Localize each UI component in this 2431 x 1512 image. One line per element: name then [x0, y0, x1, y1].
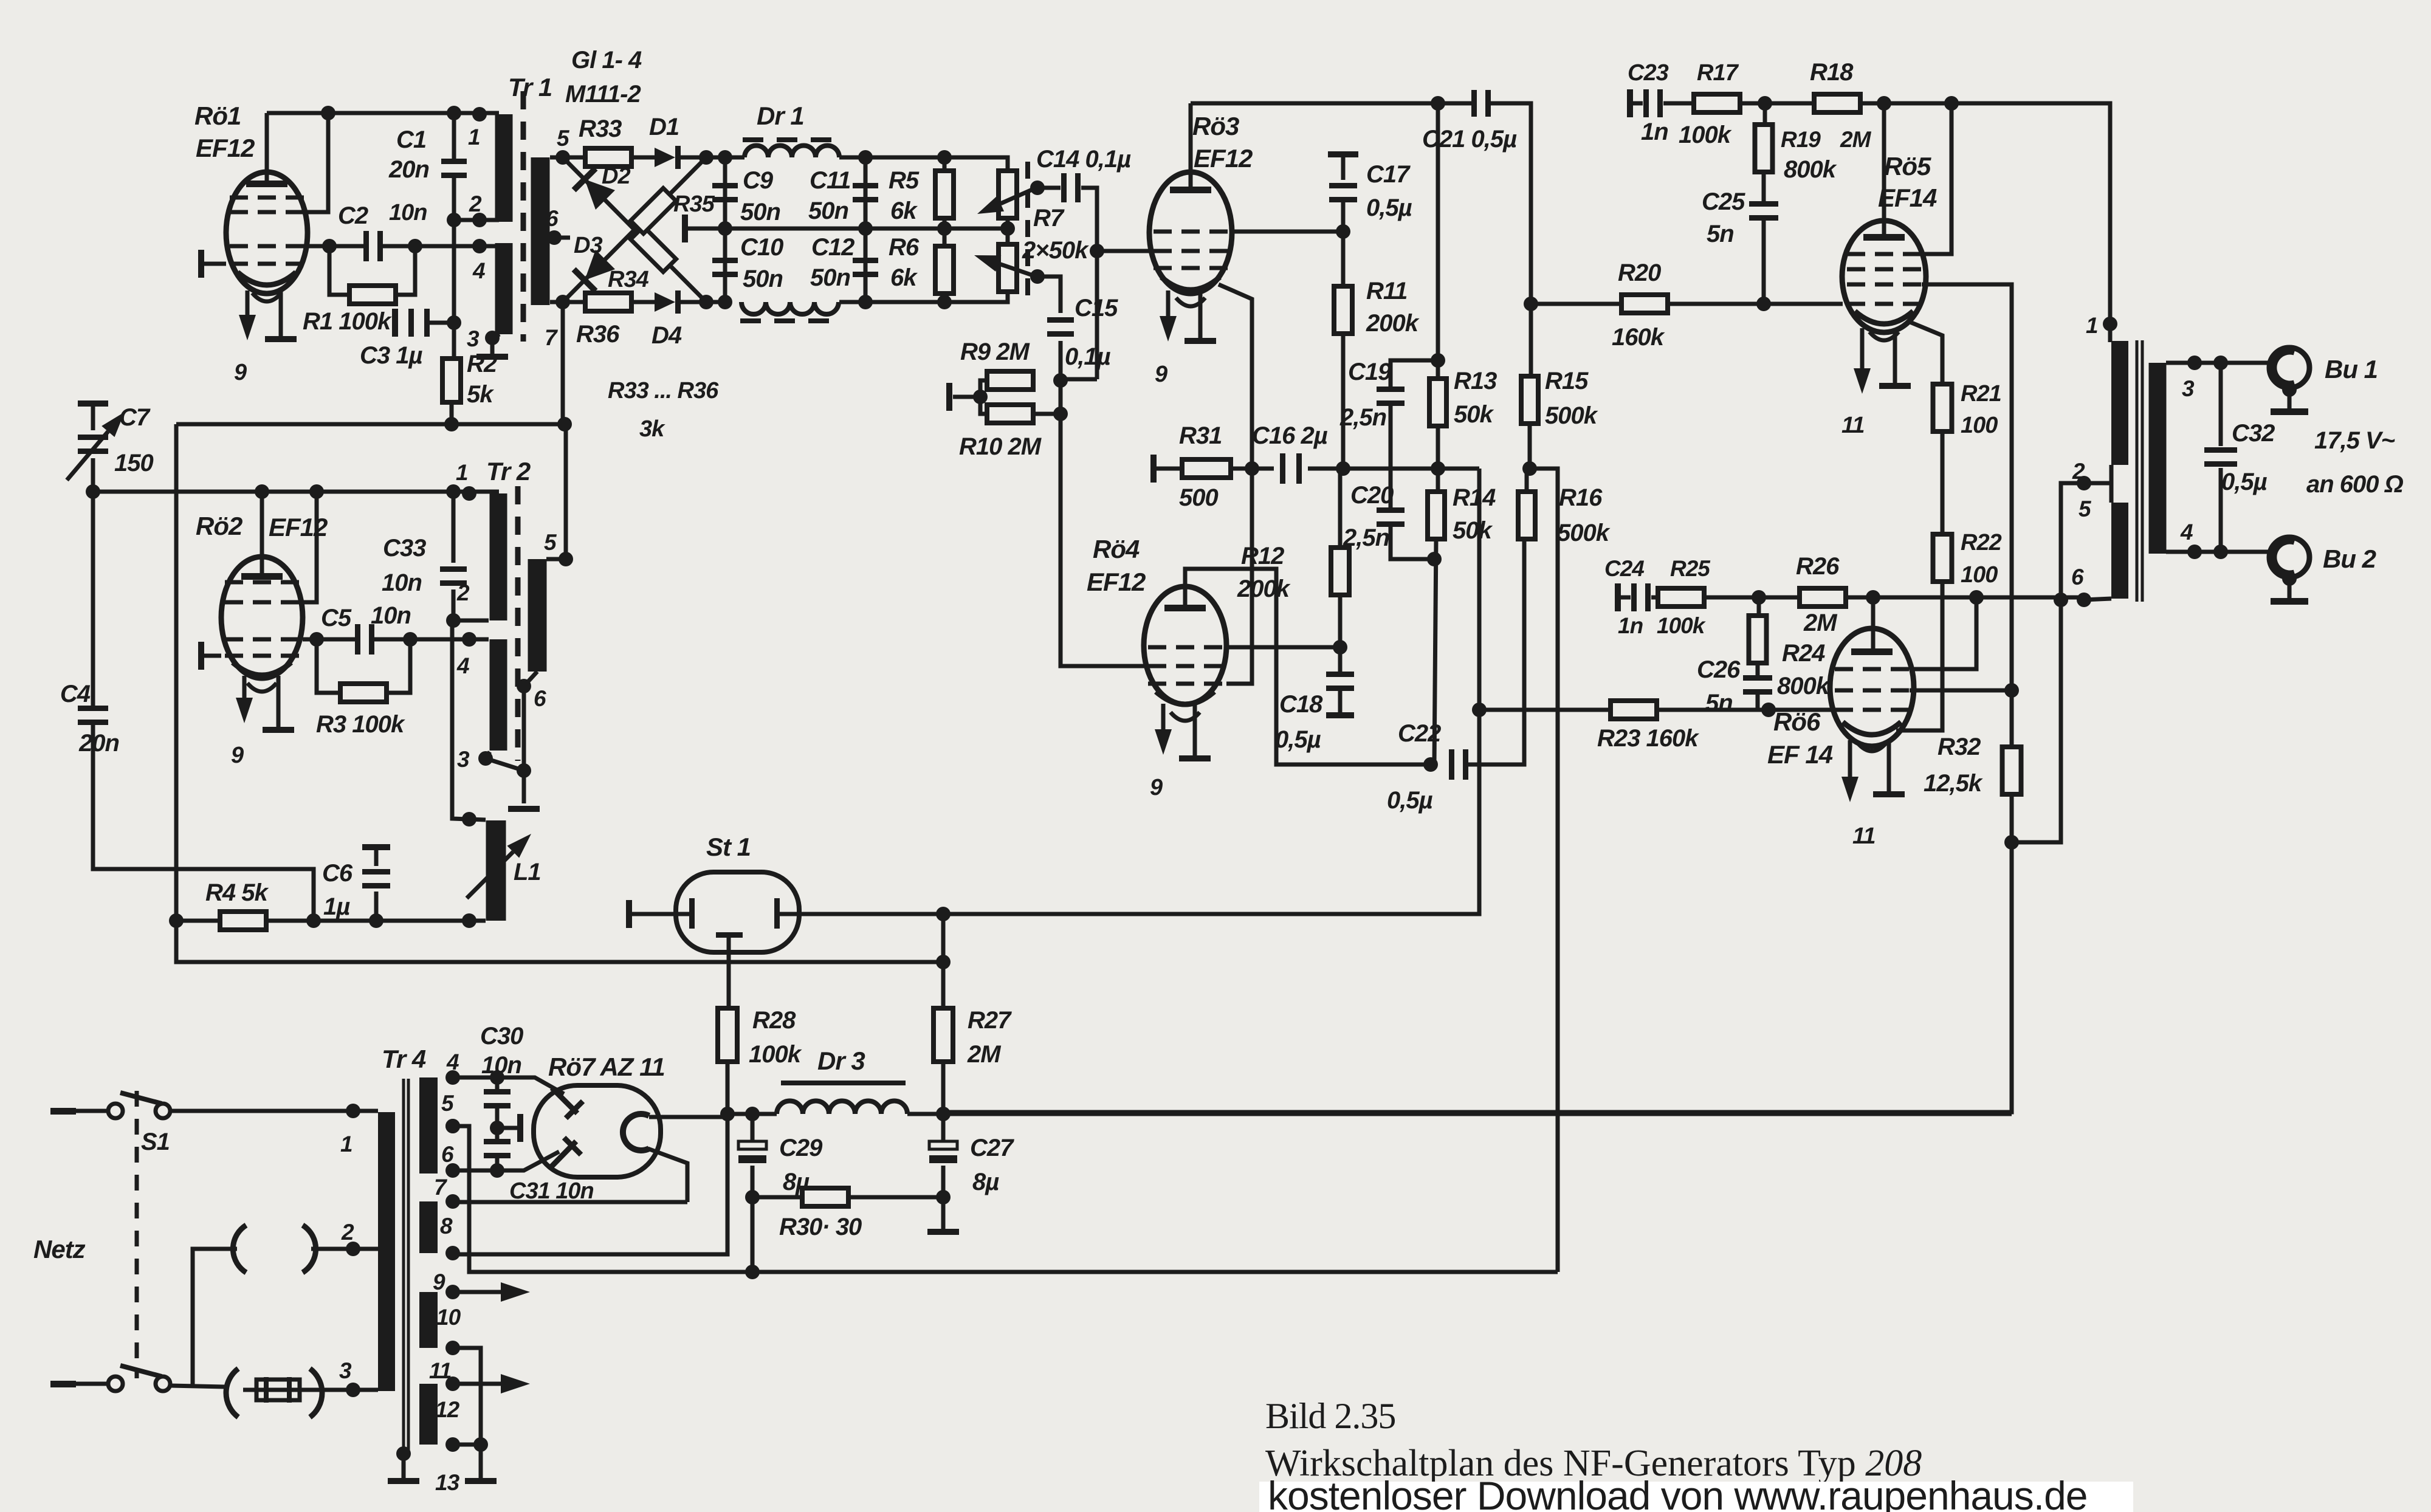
- wire C9 column: [723, 157, 727, 229]
- capacitor C2 10n: [363, 231, 369, 261]
- wire pin4 to tube: [453, 1077, 564, 1094]
- resistor R26 2M: [1800, 588, 1846, 607]
- svg-text:200k: 200k: [1366, 310, 1420, 337]
- wire C3 to column: [430, 321, 454, 325]
- svg-text:3k: 3k: [639, 416, 665, 442]
- svg-text:C20: C20: [1350, 482, 1394, 509]
- svg-text:100k: 100k: [1657, 613, 1707, 638]
- junction C19 top: [1431, 353, 1445, 368]
- svg-text:8: 8: [440, 1214, 453, 1239]
- core Tr2 dashed: [515, 486, 521, 761]
- switch S1 lower contact b: [156, 1376, 170, 1391]
- svg-text:Rö7 AZ 11: Rö7 AZ 11: [548, 1053, 665, 1081]
- svg-text:0,5µ: 0,5µ: [2221, 469, 2268, 495]
- svg-text:0,1µ: 0,1µ: [1065, 343, 1111, 370]
- wire plug upper to pin2: [311, 1247, 378, 1251]
- wire R30 right lead: [848, 1195, 943, 1200]
- resistor R15 500k: [1521, 376, 1538, 424]
- svg-text:R17: R17: [1697, 60, 1739, 86]
- svg-text:6: 6: [546, 206, 559, 231]
- wire C26 to R23 line: [1758, 694, 1769, 710]
- junction L1 top: [462, 812, 476, 826]
- junction R20 tap: [1524, 297, 1538, 311]
- junction C1 top: [447, 106, 461, 120]
- wire pin2/5 stub: [2084, 481, 2111, 486]
- wire R27 bottom: [941, 1062, 946, 1114]
- switch S1 upper lever: [120, 1093, 162, 1104]
- capacitor C29 8µ: [738, 1141, 766, 1149]
- junction C21 left / R13 column: [1431, 96, 1445, 111]
- svg-text:2M: 2M: [1803, 610, 1838, 636]
- core Dr1 dashed bottom: [740, 318, 842, 323]
- capacitor C33 10n: [440, 566, 467, 572]
- junction C29 top: [745, 1107, 760, 1121]
- ground Bu1: [2271, 408, 2308, 415]
- svg-text:10n: 10n: [371, 602, 411, 629]
- terminal bar mid rail: [682, 215, 688, 242]
- junction pin10: [445, 1341, 460, 1355]
- resistor R1 100k: [349, 286, 396, 304]
- junction Rö6 screen: [1969, 590, 1984, 605]
- junction R12/C18: [1333, 640, 1347, 655]
- junction wiper lower: [1030, 269, 1045, 284]
- tube Rö2 EF12: [221, 557, 303, 678]
- wire R25 to R26: [1704, 596, 1800, 600]
- junction R9R10 left: [973, 390, 988, 404]
- wire R1 right leg: [394, 246, 415, 295]
- svg-text:R1 100k: R1 100k: [303, 308, 392, 335]
- wire C18 lower stem: [1338, 690, 1343, 712]
- junction sec top a: [2187, 356, 2202, 370]
- wire Rö5 cathode arrow: [1860, 328, 1865, 368]
- wire pin2 column to C3: [452, 220, 456, 323]
- svg-text:C3 1µ: C3 1µ: [360, 342, 422, 369]
- svg-text:R6: R6: [889, 234, 920, 261]
- svg-text:R24: R24: [1782, 640, 1825, 667]
- svg-text:Netz: Netz: [33, 1235, 86, 1263]
- wire column down to Ro4 grid: [1061, 380, 1145, 666]
- svg-text:11: 11: [1841, 413, 1864, 438]
- svg-text:C5: C5: [321, 605, 352, 631]
- junction R11/R12: [1336, 461, 1350, 476]
- junction R15/R16: [1522, 461, 1537, 476]
- junction R19 top: [1758, 96, 1772, 111]
- output transformer secondary: [2149, 363, 2167, 554]
- svg-text:10n: 10n: [389, 200, 427, 225]
- core Tr1 dashed: [521, 91, 526, 342]
- svg-text:20n: 20n: [78, 730, 119, 757]
- junction pin4 at bar: [472, 239, 487, 253]
- svg-text:S1: S1: [141, 1129, 170, 1155]
- svg-text:100: 100: [1961, 562, 1998, 588]
- ground Rö2 cathode: [263, 727, 294, 733]
- wire D1 to node: [681, 156, 725, 160]
- capacitor C26 5n: [1743, 675, 1772, 681]
- resistor R31 500: [1182, 459, 1231, 478]
- wire R4 to C6 to L1: [266, 919, 486, 923]
- junction pin9: [445, 1285, 460, 1299]
- resistor R32 12,5k: [2003, 747, 2021, 794]
- svg-text:5n: 5n: [1707, 221, 1734, 247]
- svg-text:R22: R22: [1961, 530, 2002, 555]
- wire R11 top stub: [1341, 232, 1346, 286]
- svg-text:20n: 20n: [388, 156, 429, 183]
- capacitor C9 50n: [712, 183, 738, 188]
- junction Bu2 stem: [2282, 571, 2297, 586]
- svg-text:6k: 6k: [890, 198, 918, 224]
- wire pin7 line: [455, 1200, 687, 1204]
- svg-text:100: 100: [1961, 413, 1998, 438]
- wire R15 col top: [1530, 301, 1531, 375]
- junction C31 bottom: [490, 1163, 504, 1178]
- svg-text:4: 4: [2180, 520, 2193, 545]
- transformer Tr1 secondary winding: [531, 157, 550, 305]
- ground C27: [927, 1229, 959, 1235]
- svg-text:L1: L1: [514, 859, 541, 885]
- capacitor C4 20n: [78, 706, 108, 711]
- svg-text:3: 3: [457, 747, 470, 772]
- svg-text:11: 11: [1852, 823, 1875, 849]
- wire C27 to ground: [941, 1166, 946, 1229]
- svg-text:50n: 50n: [810, 264, 850, 291]
- svg-text:150: 150: [114, 450, 153, 476]
- junction feedback: [557, 417, 572, 431]
- svg-text:R20: R20: [1618, 259, 1661, 286]
- svg-text:C1: C1: [396, 126, 426, 153]
- junction Tr4 pin2: [346, 1242, 360, 1256]
- jack Bu1: [2269, 348, 2309, 388]
- diode D4: [655, 292, 675, 312]
- svg-text:4: 4: [456, 653, 469, 678]
- resistor R22 100: [1933, 534, 1952, 582]
- wire Rö4 anode path: [1185, 569, 1431, 765]
- terminal C24 left: [1615, 583, 1621, 611]
- svg-text:1: 1: [2086, 313, 2098, 338]
- wire R7 mid stub: [1006, 218, 1010, 245]
- svg-text:9: 9: [1155, 362, 1167, 387]
- anode plate Rö7 upper: [552, 1088, 577, 1113]
- wire bridge bottom rail: [550, 300, 585, 304]
- junction sec bot b: [2213, 545, 2228, 559]
- svg-text:7: 7: [545, 325, 559, 350]
- wire C12 column: [864, 229, 868, 302]
- capacitor C15 0,1µ: [1047, 317, 1074, 323]
- capacitor C31 10n: [484, 1139, 511, 1144]
- electrode St1 right: [774, 898, 780, 929]
- junction Rö1 screen rail: [321, 106, 335, 120]
- wire R23 to Rö6 grid: [1657, 708, 1831, 712]
- terminal R31 left: [1150, 455, 1157, 483]
- choke Dr3 winding: [777, 1101, 907, 1115]
- capacitor C20 2,5n: [1377, 507, 1405, 513]
- tube Rö4 EF12: [1144, 586, 1226, 704]
- wire grid leak to terminal: [953, 395, 980, 399]
- transformer Tr2 secondary: [528, 559, 547, 672]
- svg-text:R5: R5: [889, 167, 920, 194]
- capacitor C5 10n: [355, 624, 360, 655]
- terminal bar Rö1 grid return: [198, 250, 204, 278]
- svg-text:2: 2: [456, 580, 470, 605]
- svg-text:R35: R35: [673, 191, 715, 217]
- core Dr3 line: [781, 1081, 906, 1085]
- wire feedback riser: [1530, 469, 1558, 1272]
- switch S1 lower contact a: [108, 1376, 123, 1391]
- wire pin6 stub: [2084, 599, 2111, 600]
- wire Rö5 g to R32 col: [1922, 284, 2012, 747]
- switch S1 upper contact b: [156, 1104, 170, 1118]
- svg-text:500k: 500k: [1557, 520, 1611, 546]
- choke Dr1 lower winding: [741, 302, 839, 314]
- wire R13 column top: [1436, 103, 1440, 379]
- svg-text:6: 6: [441, 1142, 454, 1167]
- wire C33 to pin2: [452, 589, 456, 620]
- wire pin6 to tube: [453, 1152, 559, 1170]
- junction pin2/5: [2077, 476, 2091, 490]
- ground Rö5 cathode: [1879, 383, 1911, 389]
- wire Rö6 g to R32 col: [1910, 689, 2012, 693]
- svg-text:C4: C4: [60, 681, 91, 707]
- junction Rö5 anode: [1877, 96, 1891, 111]
- svg-text:R33: R33: [579, 115, 622, 142]
- wire C6 top stem: [374, 850, 379, 866]
- wire R32 bottom: [2010, 794, 2014, 842]
- wire pin10 loop: [453, 1348, 481, 1445]
- wire pin2 to L1 top: [452, 620, 486, 820]
- svg-text:D3: D3: [574, 233, 602, 258]
- capacitor C10 50n: [712, 258, 738, 263]
- junction R32 bottom: [2004, 835, 2019, 850]
- junction C4 branch: [306, 913, 321, 928]
- junction R5 top: [937, 150, 952, 165]
- wire R14 bottom to C22: [1434, 538, 1436, 765]
- wire Rö1 cathode lead with arrow: [246, 290, 250, 315]
- terminal bar Rö2 grid: [198, 642, 204, 670]
- wire C4 to lower corner: [93, 724, 314, 921]
- wire pin2-5 tie: [2110, 465, 2114, 503]
- filament Rö7: [623, 1114, 649, 1150]
- junction Rö5 screen: [1944, 96, 1959, 111]
- svg-text:1: 1: [456, 460, 468, 485]
- svg-text:R7: R7: [1033, 205, 1065, 232]
- lead lower mains: [50, 1381, 76, 1387]
- junction pin6: [517, 679, 531, 693]
- wire C31 stem: [495, 1158, 500, 1170]
- wire pin3 to ground: [490, 338, 495, 354]
- junction R5/R6 mid: [937, 221, 952, 236]
- wire R27 top stub: [941, 914, 946, 1009]
- wire pin2 stub: [453, 619, 489, 623]
- wire fuse to pin3: [312, 1388, 378, 1392]
- svg-text:C14 0,1µ: C14 0,1µ: [1036, 146, 1131, 173]
- potentiometer R7 lower: [999, 244, 1017, 292]
- wire Rö6 anode riser: [1871, 597, 1876, 650]
- wire R24 top stub: [1757, 597, 1761, 616]
- junction Tr1 pin6: [547, 230, 562, 245]
- svg-text:2: 2: [469, 191, 482, 216]
- junction C20 bottom: [1427, 552, 1442, 566]
- svg-text:12: 12: [435, 1397, 460, 1422]
- wire Tr1 pin2 stub: [454, 218, 499, 222]
- svg-text:800k: 800k: [1784, 156, 1837, 183]
- junction Tr2 pin1: [462, 486, 476, 501]
- svg-text:Bild 2.35: Bild 2.35: [1265, 1396, 1395, 1436]
- svg-text:R30· 30: R30· 30: [779, 1214, 862, 1240]
- svg-text:R14: R14: [1453, 484, 1496, 511]
- svg-text:3: 3: [2182, 376, 2195, 401]
- wire pin6 ground column: [522, 686, 526, 803]
- transformer Tr2 primary lower: [490, 639, 507, 751]
- junction C6: [369, 913, 383, 928]
- junction pin5 tr4: [445, 1119, 460, 1133]
- svg-text:0,5µ: 0,5µ: [1366, 194, 1412, 221]
- svg-text:C30: C30: [480, 1023, 523, 1050]
- resistor R2 5k: [442, 359, 461, 402]
- tube Rö5 EF14: [1842, 221, 1926, 332]
- wire D4 to node: [681, 300, 725, 304]
- svg-text:kostenloser Download von www.r: kostenloser Download von www.raupenhaus.…: [1268, 1473, 2088, 1512]
- resistor R3 100k: [340, 684, 387, 702]
- svg-text:12,5k: 12,5k: [1924, 770, 1983, 797]
- resistor R27 2M: [934, 1008, 953, 1062]
- svg-text:C31 10n: C31 10n: [509, 1178, 594, 1204]
- wire Tr1 pin6 stub: [550, 236, 570, 240]
- junction C7: [86, 484, 100, 499]
- svg-text:50n: 50n: [808, 198, 848, 224]
- wire C21 to corner: [1490, 103, 1531, 301]
- junction C27 bottom: [936, 1190, 951, 1204]
- wire C27 stem: [941, 1114, 946, 1141]
- arrow heater 11: [453, 1382, 501, 1386]
- wire plug upper link: [193, 1249, 237, 1386]
- wire Tr2 pin5 stub: [546, 557, 566, 562]
- wire R11 bottom stub: [1341, 334, 1346, 469]
- junction R2 bottom: [444, 417, 459, 431]
- wire top rail Rö3: [1191, 101, 1473, 106]
- svg-text:6k: 6k: [890, 264, 918, 291]
- svg-text:C2: C2: [338, 202, 368, 229]
- resistor R14 50k: [1428, 492, 1445, 539]
- capacitor C25 5n: [1749, 201, 1778, 207]
- wire R15 bottom stub: [1528, 424, 1532, 469]
- svg-text:R11: R11: [1366, 278, 1407, 304]
- svg-text:R15: R15: [1545, 368, 1589, 394]
- plug contact lower left: [226, 1369, 238, 1417]
- tube St1: [676, 872, 799, 952]
- transformer Tr4 winding 7-8: [419, 1201, 438, 1253]
- wire Rö7 filament out: [649, 1115, 727, 1119]
- junction pin3 col: [517, 763, 531, 778]
- wire chassis stub: [497, 1126, 518, 1130]
- tube Rö6 EF14: [1830, 628, 1914, 746]
- capacitor C21 0,5µ: [1471, 90, 1477, 117]
- junction C2 right: [408, 239, 422, 253]
- terminal C23 left: [1627, 89, 1633, 117]
- wire C20 bottom bend: [1391, 526, 1434, 559]
- junction pin6: [2077, 593, 2091, 607]
- junction R13/R14: [1431, 461, 1445, 476]
- wire upper mains lead: [76, 1109, 109, 1113]
- svg-text:5: 5: [557, 126, 570, 151]
- wire Rö1 screen to top rail: [304, 113, 328, 212]
- ground Rö1 cathode: [265, 336, 297, 342]
- junction pin3: [478, 751, 493, 766]
- wire R12 bottom stub: [1338, 594, 1343, 647]
- svg-text:EF14: EF14: [1878, 184, 1937, 212]
- junction Tr1 pin1: [472, 107, 487, 122]
- wire Rö4 g3 to cathode node: [1226, 469, 1252, 684]
- plug contact lower right: [310, 1369, 322, 1417]
- junction C29 bus: [745, 1265, 760, 1279]
- svg-text:D1: D1: [649, 114, 679, 140]
- svg-text:R31: R31: [1179, 422, 1222, 449]
- resistor R23 160k: [1611, 701, 1657, 719]
- wire Rö2 grid left stub: [204, 654, 221, 658]
- ground Tr4 core: [388, 1478, 419, 1484]
- wire R21-R22 link: [1941, 431, 1945, 534]
- wire R14 top stub: [1436, 469, 1440, 492]
- wire pin3 stub: [486, 752, 490, 758]
- wire Tr1 pin7 drop: [561, 302, 565, 424]
- switch S1 upper contact a: [108, 1104, 123, 1118]
- wire C14 to grid column: [1081, 188, 1097, 379]
- wire C7 stem: [91, 458, 95, 492]
- wire C29 stem: [751, 1114, 755, 1141]
- wire Rö6 screen riser: [1910, 597, 1976, 669]
- junction pin2/C1: [447, 213, 461, 227]
- wire left loop vertical: [174, 424, 179, 921]
- resistor R16 500k: [1518, 492, 1535, 539]
- svg-text:R23 160k: R23 160k: [1597, 725, 1699, 752]
- svg-text:2M: 2M: [1840, 127, 1872, 152]
- capacitor C32 0,5µ: [2204, 447, 2237, 453]
- svg-text:R27: R27: [968, 1007, 1012, 1034]
- resistor R28 100k: [718, 1008, 737, 1062]
- wire R6 stub top: [943, 229, 947, 246]
- wire St1 left lead: [632, 912, 689, 916]
- wire Rö3 gridline right: [1232, 230, 1343, 234]
- junction pin2: [446, 613, 461, 628]
- capacitor C17 0,5µ: [1329, 183, 1357, 188]
- junction C30 top: [490, 1070, 504, 1085]
- wire core ground stem: [402, 1454, 406, 1478]
- junction R27 top: [936, 907, 951, 921]
- wire Rö1 grid g1 to C2 node: [304, 244, 329, 249]
- resistor R13 50k: [1429, 379, 1446, 426]
- transformer Tr2 primary upper: [490, 493, 507, 620]
- terminal bar C3 left: [392, 309, 398, 337]
- wire R22 to Rö6 cathode: [1896, 582, 1942, 730]
- ground Tr2: [508, 806, 540, 812]
- svg-text:1µ: 1µ: [323, 893, 350, 920]
- junction L1 bottom: [462, 913, 476, 928]
- capacitor C23 1n: [1643, 89, 1649, 117]
- wire Rö1 g-left stub: [204, 262, 226, 266]
- svg-text:2,5n: 2,5n: [1339, 404, 1386, 431]
- wire R3 right leg: [386, 639, 410, 693]
- wire pin13 ground stem: [479, 1445, 483, 1478]
- junction R4 left: [169, 913, 184, 928]
- svg-text:8µ: 8µ: [972, 1169, 999, 1195]
- arrow C7 variable: [67, 431, 108, 480]
- junction bridge top-left: [555, 150, 570, 165]
- svg-text:Tr 4: Tr 4: [382, 1045, 426, 1073]
- svg-text:R21: R21: [1961, 381, 2001, 407]
- junction C2 left: [322, 239, 337, 253]
- wire C18 stem: [1338, 647, 1343, 672]
- svg-text:C26: C26: [1697, 656, 1741, 683]
- svg-text:C9: C9: [743, 167, 774, 194]
- svg-text:800k: 800k: [1777, 673, 1831, 699]
